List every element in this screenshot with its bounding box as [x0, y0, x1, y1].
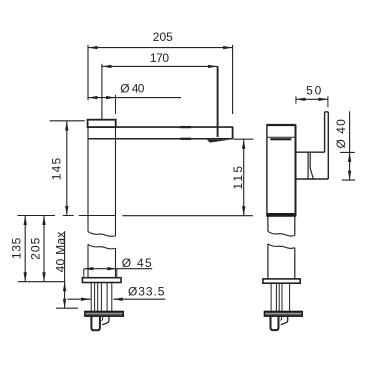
side view body right edge thick — [295, 125, 297, 216]
spout bottom edge — [88, 138, 233, 140]
svg-text:145: 145 — [49, 157, 63, 180]
svg-text:Ø 40: Ø 40 — [120, 81, 144, 95]
hose end beside nut (front view) — [102, 316, 109, 324]
dimension dia40 side: line — [349, 111, 351, 180]
dimension 115: arrows — [242, 139, 245, 216]
dimension 205 top: line — [88, 47, 233, 49]
side view supply pipes — [271, 283, 290, 311]
dimension dia40 side: arrows — [348, 152, 351, 180]
dimension 50: extension ticks — [296, 96, 328, 107]
side view column below deck: upper stubs — [268, 216, 295, 235]
dimension 205 top: extension lines — [88, 45, 233, 114]
dimension dia45: arrows — [84, 267, 117, 270]
svg-text:205: 205 — [153, 30, 173, 44]
supply pipes / threaded shank lines — [91, 283, 112, 312]
side view handle hub bottom edge — [296, 178, 329, 180]
dimension dia33.5: left arrow line — [67, 298, 90, 300]
dimension dia45: extension ticks — [84, 269, 117, 277]
dimension 115: line — [243, 139, 245, 216]
dimension dia40 column: line with leader — [88, 97, 181, 99]
svg-text:Ø33.5: Ø33.5 — [128, 285, 165, 299]
side view seam dark bar — [270, 138, 291, 140]
dimension dia45: line — [84, 268, 152, 270]
spout joint dash bottom — [180, 138, 191, 140]
dimension 170: arrows — [102, 65, 218, 68]
dimension dia40 column: arrows — [88, 96, 116, 99]
svg-text:170: 170 — [150, 51, 170, 65]
column left edge lower — [87, 244, 89, 277]
side view mounting nut — [271, 317, 279, 331]
column right edge lower — [115, 248, 117, 278]
column left edge upper — [87, 127, 89, 231]
svg-text:205: 205 — [28, 237, 42, 260]
column break wavy line 1 — [88, 232, 116, 237]
dimension 205 left: arrows — [42, 216, 45, 282]
side view body top edge thick — [267, 124, 296, 126]
dimension 205 top: arrows — [88, 46, 233, 49]
dimension 170: extension lines — [101, 64, 103, 120]
dimension 40 Max: arrows — [63, 282, 66, 308]
spout top edge — [116, 126, 233, 128]
column break wavy line 2 — [88, 244, 116, 248]
dimension dia33.5: arrows — [81, 298, 123, 301]
dimension 40 Max: line — [64, 231, 66, 308]
dimension 135: line — [24, 216, 26, 282]
dimension dia33.5: right leader line — [113, 298, 165, 300]
side view body outline — [267, 125, 296, 216]
svg-text:Ø 40: Ø 40 — [334, 119, 348, 149]
svg-text:115: 115 — [231, 166, 245, 190]
dimension 145: arrows — [65, 121, 68, 215]
side view hub inner lines — [308, 152, 313, 179]
side view break wavy line 2 — [268, 244, 295, 249]
dimension 50: arrows — [296, 98, 328, 101]
side view break wavy line 1 — [268, 231, 295, 236]
spout joint dash top — [180, 126, 191, 128]
side view handle hub top edge — [296, 151, 325, 153]
spout right edge (tip) — [232, 126, 234, 139]
dimension 50: line — [296, 98, 328, 100]
side view body bottom dark bar — [266, 213, 296, 216]
side view column lower edges — [268, 244, 295, 279]
deck flange (front view) — [82, 278, 121, 283]
side view handle blade — [325, 112, 329, 179]
side view hose end — [281, 316, 288, 324]
dimension 145: top extension line — [50, 120, 85, 122]
svg-text:135: 135 — [10, 237, 24, 259]
svg-text:Ø 45: Ø 45 — [122, 256, 152, 270]
dimension dia40 column: right extension tick — [115, 95, 117, 114]
side view mounting washer — [264, 311, 302, 316]
dimension 145: line — [66, 121, 68, 215]
dimension 205 left: line — [43, 216, 45, 282]
faucet cap (top of column, front view) — [88, 120, 116, 127]
svg-text:40 Max: 40 Max — [53, 231, 67, 272]
side view deck flange — [263, 279, 300, 283]
dimension dia40 side: extension ticks — [340, 152, 355, 180]
dimension 115: top extension line — [234, 138, 254, 140]
extension line deck-left — [18, 281, 65, 283]
aerator wedge under spout tip — [207, 140, 230, 143]
svg-text:50: 50 — [306, 84, 322, 98]
deck line segments — [18, 215, 253, 217]
mounting nut (front view) — [91, 317, 100, 331]
mounting washer (front view) — [85, 311, 124, 316]
column right edge upper — [115, 127, 117, 236]
side view seam line — [267, 136, 296, 138]
dimension 135: arrows — [24, 216, 27, 282]
extension line 40max bottom — [56, 307, 78, 309]
dimension 170: line — [102, 65, 218, 67]
